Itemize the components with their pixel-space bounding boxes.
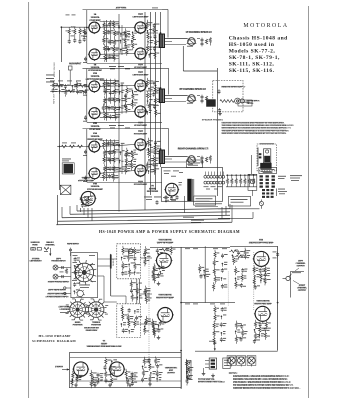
wire strip B top bbox=[181, 302, 235, 304]
svg-text:12 BH7A: 12 BH7A bbox=[91, 75, 100, 78]
wire supply bus 3 bbox=[62, 215, 230, 217]
label vibrasonic output bbox=[165, 367, 178, 375]
wire feedback rail bbox=[118, 14, 120, 196]
svg-text:7027: 7027 bbox=[138, 131, 144, 133]
label V6B bbox=[134, 181, 148, 187]
svg-text:SHIELD: SHIELD bbox=[113, 258, 115, 266]
tube V1B bbox=[88, 49, 101, 61]
label V4A bbox=[132, 71, 149, 77]
svg-text:1A: 1A bbox=[94, 13, 97, 16]
svg-text:RT CHANNEL SPEAKER: RT CHANNEL SPEAKER bbox=[180, 88, 207, 91]
label extra spkr jack bbox=[247, 100, 260, 105]
svg-text:12AX7: 12AX7 bbox=[101, 342, 108, 345]
tube V3A bbox=[88, 81, 101, 93]
svg-text:RT PULSE AMP: RT PULSE AMP bbox=[87, 188, 104, 191]
svg-text:POSITION: POSITION bbox=[73, 325, 83, 327]
connector channel output bbox=[273, 252, 305, 298]
vertical label pilot box bbox=[257, 148, 260, 167]
svg-text:FUSE: FUSE bbox=[32, 245, 38, 247]
wire feedback loop 3 bbox=[162, 129, 169, 156]
label V6A bbox=[134, 130, 148, 136]
label right tape input bbox=[45, 292, 69, 298]
label V1B hifi bbox=[156, 294, 174, 300]
wire preamp inner bottom bbox=[70, 380, 181, 382]
tube V2A final bbox=[253, 251, 270, 267]
capacitor C fader bbox=[218, 108, 221, 113]
svg-text:RT OUT AMP: RT OUT AMP bbox=[134, 183, 148, 186]
label conn cap mount bbox=[29, 258, 42, 263]
svg-text:POSITION: POSITION bbox=[91, 325, 101, 327]
svg-text:RIGHT PHONO INPUT: RIGHT PHONO INPUT bbox=[48, 282, 70, 284]
svg-text:ARROW INDICATES CLOCKWISE ROTA: ARROW INDICATES CLOCKWISE ROTATION OF CO… bbox=[233, 387, 301, 390]
dotted gang line bbox=[227, 272, 229, 306]
wire bus drops bbox=[81, 196, 185, 221]
wire preamp inner top bbox=[70, 357, 181, 359]
wire feedback loop 2 bbox=[162, 68, 169, 94]
label V3B bbox=[89, 122, 101, 130]
wire block3 inner verticals bbox=[107, 139, 123, 181]
control fader dark bbox=[206, 99, 216, 106]
transformer T3 bbox=[159, 150, 172, 165]
tube V1b preamp bbox=[109, 362, 125, 377]
svg-text:RT OUT AMP: RT OUT AMP bbox=[134, 133, 148, 136]
svg-text:OUTPUT: OUTPUT bbox=[296, 266, 305, 268]
cluster R15 C16 bbox=[229, 248, 250, 265]
label aux input bbox=[69, 63, 82, 66]
svg-text:7027: 7027 bbox=[138, 122, 144, 124]
tube V3B bbox=[88, 108, 101, 120]
switch bass rotary bbox=[67, 299, 88, 320]
label left phono input bbox=[51, 258, 66, 263]
tube V2B final bbox=[254, 306, 271, 322]
switch on-off bbox=[60, 185, 71, 194]
label V4B bbox=[134, 122, 148, 128]
dashed box tone A bbox=[117, 244, 141, 279]
tube V4B 7027 bbox=[134, 106, 147, 118]
wire block1 rungs bbox=[103, 25, 158, 49]
label V4 rect bbox=[78, 177, 95, 183]
preamp cluster 5 bbox=[141, 357, 163, 384]
svg-text:CAPACITORS - UNLESS OTHERWISE: CAPACITORS - UNLESS OTHERWISE SPECIFIED: bbox=[233, 375, 290, 378]
label tape input top bbox=[67, 243, 80, 246]
fuse symbols bbox=[31, 247, 52, 256]
label aux tone bbox=[116, 6, 158, 9]
svg-text:RIGHT FINL AMP: RIGHT FINL AMP bbox=[254, 302, 272, 305]
resistor cluster block2 mid bbox=[124, 86, 138, 113]
svg-text:CAUTION: HIGH VOLTAGES ARE PR: CAUTION: HIGH VOLTAGES ARE PRESENT IN TH… bbox=[222, 122, 286, 125]
resistor cluster V1A bbox=[152, 263, 165, 283]
wire block3 rungs bbox=[103, 144, 158, 168]
label V2B final bbox=[254, 300, 272, 306]
tube V6A 7027 bbox=[134, 139, 147, 151]
selector inner components bbox=[73, 257, 81, 294]
label right channel output bbox=[293, 281, 308, 292]
label AC line bbox=[278, 175, 302, 181]
wire B+ rail 1 bbox=[144, 12, 146, 201]
speaker right channel bbox=[178, 148, 212, 165]
box AC interlock 2 bbox=[228, 197, 250, 207]
svg-text:V2B: V2B bbox=[93, 123, 98, 125]
preamp cluster 2 bbox=[90, 370, 103, 388]
wire final right vertical bbox=[277, 246, 279, 350]
svg-text:V3B: V3B bbox=[93, 183, 98, 185]
svg-text:12 BH7A: 12 BH7A bbox=[91, 66, 100, 69]
wire block2 inner verticals bbox=[107, 79, 123, 121]
svg-text:SPEAKER PHASING: SPEAKER PHASING bbox=[202, 119, 223, 122]
label V1B bbox=[88, 64, 103, 73]
right page border bbox=[308, 6, 310, 398]
resistor cluster block1 mid bbox=[124, 28, 137, 56]
svg-text:TAPE OUT: TAPE OUT bbox=[53, 93, 56, 104]
svg-text:TAPE INPUT: TAPE INPUT bbox=[67, 243, 80, 246]
capacitor C aux bbox=[69, 66, 73, 86]
dashed box tone B bbox=[117, 304, 141, 338]
tube V5B bbox=[88, 168, 101, 180]
vertical label tape out bbox=[53, 93, 56, 104]
svg-text:L INPUT: L INPUT bbox=[55, 366, 64, 368]
label V2B bbox=[134, 64, 148, 70]
svg-text:DECIMAL VALUES IN MF - ALL OTH: DECIMAL VALUES IN MF - ALL OTHERS IN MMF… bbox=[233, 378, 288, 381]
label V1A bbox=[89, 13, 101, 22]
wire feedback loop 1 bbox=[162, 10, 168, 38]
wire block2 tube links bbox=[100, 80, 135, 117]
svg-text:LEFT HI FI AMP: LEFT HI FI AMP bbox=[157, 241, 174, 244]
switch position labels bbox=[66, 299, 109, 321]
svg-text:LOUDNESS: LOUDNESS bbox=[59, 309, 71, 311]
svg-text:SK-78-1, SK-79-1,: SK-78-1, SK-79-1, bbox=[229, 55, 280, 61]
svg-text:V1B 12AX7A: V1B 12AX7A bbox=[158, 294, 172, 297]
cluster below V2B left bbox=[235, 321, 247, 344]
wire mixer row 1 bbox=[50, 85, 87, 87]
svg-text:WITH RESPECT TO CHASSIS GROUND: WITH RESPECT TO CHASSIS GROUND WITH NO S… bbox=[222, 127, 292, 130]
label left tape input bbox=[48, 289, 67, 292]
label cartridge fuse bbox=[30, 241, 55, 246]
psu top box bbox=[186, 160, 202, 168]
capacitor bottom feed bbox=[209, 340, 216, 350]
cluster preamp out bbox=[186, 359, 194, 386]
svg-text:LT CHANNEL SPEAKER: LT CHANNEL SPEAKER bbox=[186, 31, 213, 34]
resistor cluster block3 mid bbox=[124, 148, 137, 175]
resistor cluster V1B bbox=[152, 319, 166, 338]
capacitor bank under V4 bbox=[80, 196, 94, 208]
notes text block upper bbox=[222, 122, 295, 135]
svg-text:12AX7A LEFT FINL AMP: 12AX7A LEFT FINL AMP bbox=[248, 241, 274, 244]
mixer labels bbox=[50, 80, 81, 83]
svg-text:V2A: V2A bbox=[93, 72, 98, 75]
svg-text:OUTPUT: OUTPUT bbox=[298, 290, 307, 292]
svg-text:12 BH7A: 12 BH7A bbox=[91, 16, 100, 19]
capacitor C remote bbox=[218, 89, 221, 94]
capacitor row psu bbox=[165, 182, 183, 201]
dotted gang line tone bbox=[148, 255, 150, 370]
svg-text:5U4GB: 5U4GB bbox=[149, 187, 157, 190]
label right phono input bbox=[48, 281, 70, 284]
svg-text:LT OUT AMP: LT OUT AMP bbox=[134, 124, 148, 127]
label left channel output bbox=[295, 260, 306, 271]
wire block2 frame bbox=[83, 68, 163, 122]
interblock labels 2 bbox=[109, 125, 130, 128]
wire supply bus 5 bbox=[56, 222, 232, 224]
wire strip A top bbox=[150, 246, 230, 248]
label left of switches bbox=[59, 308, 71, 312]
wire bus left risers bbox=[58, 195, 78, 225]
resistor cluster block1 output bbox=[146, 20, 161, 59]
transformer T2 bbox=[159, 89, 172, 104]
tone strip cluster 1 bbox=[143, 246, 151, 266]
notes text block bottom bbox=[233, 375, 301, 390]
label to the unit bbox=[198, 378, 226, 384]
resistor chain R1 bbox=[66, 15, 76, 44]
wire final bottom bbox=[195, 350, 278, 352]
svg-text:Chassis HS-1048 and: Chassis HS-1048 and bbox=[229, 36, 288, 42]
box small remote top bbox=[238, 100, 252, 106]
wire final A top bbox=[230, 245, 278, 247]
svg-text:HS-1048 POWER AMP & POWER SUPP: HS-1048 POWER AMP & POWER SUPPLY SCHEMAT… bbox=[99, 230, 240, 234]
box bias supply bbox=[259, 168, 277, 174]
selector box bbox=[71, 253, 98, 298]
wire psu outputs bbox=[195, 204, 222, 207]
wire block2 rungs bbox=[103, 84, 158, 108]
pot tone A bbox=[128, 248, 133, 254]
wire B+ rail 2 bbox=[150, 12, 152, 195]
labels strip A wire bbox=[185, 248, 227, 304]
box AC interlock bbox=[194, 196, 216, 205]
inductor secondary windings bbox=[204, 172, 225, 185]
labels mid strip bbox=[199, 264, 211, 278]
label V1 vibrasonic bbox=[87, 340, 123, 348]
svg-text:MOTOROLA: MOTOROLA bbox=[243, 23, 288, 29]
preamp cluster 1 bbox=[71, 371, 83, 387]
label bass position bbox=[73, 321, 83, 327]
svg-text:LT AF AMP: LT AF AMP bbox=[89, 19, 101, 22]
jack right phono bbox=[53, 274, 71, 279]
wire speaker branch down bbox=[183, 46, 217, 71]
wire supply bus 1 bbox=[77, 209, 230, 211]
wire selector to tone A bbox=[98, 259, 127, 304]
interblock labels 1 bbox=[109, 66, 130, 69]
wire block1 frame bbox=[83, 10, 163, 64]
input column components bbox=[60, 266, 68, 278]
wire selector row out bbox=[98, 276, 117, 302]
label last used bbox=[58, 305, 70, 308]
svg-text:12 BH7A: 12 BH7A bbox=[91, 185, 100, 188]
capacitor marks grid3 bbox=[83, 146, 88, 182]
box preamp bbox=[69, 353, 181, 388]
wire block3 frame bbox=[83, 129, 163, 183]
svg-text:12 BH7A: 12 BH7A bbox=[91, 135, 100, 138]
preamp cluster 4 bbox=[125, 369, 138, 387]
svg-text:VOLTAGES - MEASURED FROM POINT: VOLTAGES - MEASURED FROM POINT INDICATED bbox=[233, 381, 291, 384]
left page border bbox=[28, 2, 30, 398]
svg-text:RIGHT HI FI AMP: RIGHT HI FI AMP bbox=[156, 296, 174, 299]
svg-text:7027: 7027 bbox=[138, 72, 144, 74]
resistor cluster block2 coupling bbox=[102, 79, 125, 121]
label selector bbox=[79, 285, 90, 288]
dashed box remote speaker bbox=[213, 80, 243, 112]
svg-text:HS-1050 used in: HS-1050 used in bbox=[229, 42, 275, 48]
caption HS-1050 bbox=[32, 334, 76, 343]
winding labels bbox=[204, 186, 223, 189]
wire left rail bbox=[59, 70, 61, 190]
vertical label phono bbox=[54, 62, 56, 77]
blob pilot box bottom bbox=[260, 163, 271, 169]
label L input bbox=[55, 366, 69, 371]
cluster below C16 bbox=[235, 266, 248, 289]
wire feed row bbox=[57, 146, 87, 148]
tone A components bbox=[121, 246, 140, 277]
resistor ladder bias bbox=[226, 175, 257, 187]
grid components V1A bbox=[156, 246, 176, 257]
label notes heading bbox=[229, 373, 238, 375]
label treble position bbox=[91, 321, 101, 326]
speaker mid channel bbox=[180, 88, 208, 104]
svg-text:VIBRASONIC PRE AMP BAL LOW: VIBRASONIC PRE AMP BAL LOW bbox=[87, 345, 123, 348]
svg-text:WAS USED. LINE VOLTAGE MAINTA: WAS USED. LINE VOLTAGE MAINTAINED AT 117… bbox=[222, 132, 288, 135]
wire B+ rail 3 bbox=[155, 12, 157, 190]
tube V1a preamp bbox=[73, 362, 89, 377]
svg-text:1B: 1B bbox=[94, 64, 97, 66]
transformer outlets bottom bbox=[227, 356, 256, 367]
wire tone link bbox=[137, 279, 140, 304]
resistor cluster block2 output bbox=[146, 78, 160, 117]
tone strip cluster 3 bbox=[144, 316, 151, 335]
labels above bus bbox=[144, 197, 176, 205]
svg-text:REMOTE SPKR SUPPLY: REMOTE SPKR SUPPLY bbox=[222, 87, 247, 89]
label V3A bbox=[86, 72, 105, 81]
wire mixer row 2 bbox=[50, 91, 87, 93]
svg-text:OR RECORDING INPUT: OR RECORDING INPUT bbox=[45, 296, 69, 298]
resistor cluster block3 output bbox=[146, 138, 160, 175]
vertical label cable bbox=[113, 258, 115, 266]
svg-text:REAR VIEW: REAR VIEW bbox=[86, 329, 98, 332]
pilot light chain bbox=[259, 200, 263, 209]
tube V5A bbox=[88, 141, 101, 153]
svg-text:LT PULSE AF: LT PULSE AF bbox=[88, 69, 103, 72]
connector strip bottom bbox=[205, 358, 217, 369]
header chassis/model text bbox=[229, 36, 288, 75]
tube V4 bbox=[80, 191, 96, 206]
jack extra speaker bbox=[235, 98, 245, 104]
capacitor marks grid2 bbox=[83, 86, 88, 122]
resistor cluster V2B bbox=[253, 320, 271, 344]
resistor row mid-left bbox=[62, 143, 83, 148]
svg-text:V2B 12AX7A: V2B 12AX7A bbox=[256, 300, 270, 303]
ground V1A bbox=[157, 282, 161, 286]
switch wafer lower bbox=[75, 289, 85, 299]
svg-text:LEFT OUT AMP: LEFT OUT AMP bbox=[132, 16, 149, 19]
svg-text:LEFT OUT AMP: LEFT OUT AMP bbox=[132, 74, 149, 77]
switch treble rotary bbox=[86, 299, 107, 320]
wire supply bus 4 bbox=[58, 219, 231, 221]
label remote supply bbox=[222, 86, 247, 89]
tube V6B 7027 bbox=[134, 165, 147, 177]
resistor cluster V2A bbox=[253, 265, 271, 289]
switch selector rotary bbox=[72, 260, 97, 285]
box terminal bottom bbox=[223, 358, 230, 369]
resistor cluster block1 coupling bbox=[103, 20, 127, 62]
transformer T3 power bbox=[187, 179, 194, 202]
wire supply bus 2 bbox=[70, 212, 230, 214]
connector preamp bbox=[186, 360, 191, 378]
label smudges around selector bbox=[72, 255, 96, 282]
label speaker phasing bbox=[202, 119, 223, 122]
svg-text:TO CHASSIS WITH A VTVM. ±20% N: TO CHASSIS WITH A VTVM. ±20% NO SIGNAL I… bbox=[233, 384, 294, 387]
caption HS-1048 bbox=[99, 230, 240, 234]
label V2A final bbox=[248, 239, 274, 245]
wire remote rail bbox=[216, 68, 218, 196]
label selector sw rear bbox=[84, 327, 99, 332]
tube V1B hifi bbox=[157, 308, 174, 324]
resistor chain R4 bbox=[83, 27, 86, 42]
wire bus right risers bbox=[222, 204, 232, 222]
shielded cable bbox=[110, 254, 112, 296]
svg-text:7027: 7027 bbox=[138, 14, 144, 16]
input row labels bbox=[46, 75, 54, 83]
terminal strip matrix 2 bbox=[262, 189, 274, 198]
svg-text:V2A: V2A bbox=[259, 239, 264, 242]
capacitor tape in bbox=[69, 248, 72, 256]
mixer components bbox=[52, 81, 89, 97]
label under pilot box bbox=[263, 172, 273, 173]
svg-text:V3A: V3A bbox=[93, 132, 98, 135]
wire B+ rail 4 bbox=[160, 12, 162, 167]
wire tape rows bbox=[64, 287, 71, 295]
resistor column B1 bbox=[213, 305, 227, 345]
svg-text:SCHEMATIC DIAGRAM: SCHEMATIC DIAGRAM bbox=[32, 339, 76, 343]
resistor chain R3 bbox=[78, 27, 84, 44]
dotted gang line volume bbox=[253, 252, 255, 310]
ground bottom pair bbox=[202, 368, 215, 378]
svg-text:AUX TONE: AUX TONE bbox=[116, 6, 127, 9]
svg-text:AUX INPUT: AUX INPUT bbox=[69, 63, 82, 66]
jack left phono bbox=[53, 265, 71, 270]
svg-text:INTERCONNECTING CABLE: INTERCONNECTING CABLE bbox=[198, 380, 226, 383]
label V1A hifi bbox=[157, 239, 174, 245]
tube V4A 7027 bbox=[134, 80, 147, 92]
wire to mid speaker bbox=[165, 96, 188, 102]
ground preamp row bbox=[74, 382, 152, 387]
svg-text:OUTPUT: OUTPUT bbox=[167, 373, 176, 375]
svg-text:SK-115, SK-116.: SK-115, SK-116. bbox=[229, 68, 275, 74]
resistor R remote bbox=[220, 100, 234, 103]
pilot box items bbox=[259, 153, 262, 158]
svg-text:RECTIFIER: RECTIFIER bbox=[147, 191, 159, 193]
svg-text:RIGHT CHANNEL SPEAKER: RIGHT CHANNEL SPEAKER bbox=[178, 148, 209, 151]
wire strip inner vertical bbox=[204, 246, 206, 302]
wire tone stubs bbox=[140, 258, 152, 324]
wire pilot feed bbox=[250, 155, 252, 174]
svg-text:CHANNEL: CHANNEL bbox=[45, 244, 56, 247]
svg-text:V1A 12AX7A: V1A 12AX7A bbox=[158, 239, 171, 242]
box pilot lamp bbox=[248, 174, 257, 196]
svg-text:Models SK-77-2,: Models SK-77-2, bbox=[229, 49, 276, 55]
tube V1A bbox=[88, 22, 101, 34]
tube V1A hifi bbox=[156, 253, 173, 269]
tube V2A 7027 bbox=[134, 22, 147, 34]
title MOTOROLA bbox=[243, 23, 288, 29]
wire to left speaker bbox=[165, 39, 188, 45]
svg-text:NOTES:: NOTES: bbox=[229, 373, 238, 375]
preamp cluster 3 bbox=[104, 357, 118, 385]
svg-text:THE AMPLIFIER INPUT TERMINALS.: THE AMPLIFIER INPUT TERMINALS. A 1000 OH… bbox=[222, 129, 290, 132]
psu inner labels bbox=[164, 171, 184, 177]
label V5B bbox=[87, 183, 104, 192]
tube V2B 7027 bbox=[134, 48, 147, 60]
label AC interlock right bbox=[278, 189, 287, 195]
resistor chain R2 bbox=[72, 27, 77, 43]
label V5A bbox=[87, 132, 103, 141]
wire strip main vertical bbox=[180, 247, 182, 389]
